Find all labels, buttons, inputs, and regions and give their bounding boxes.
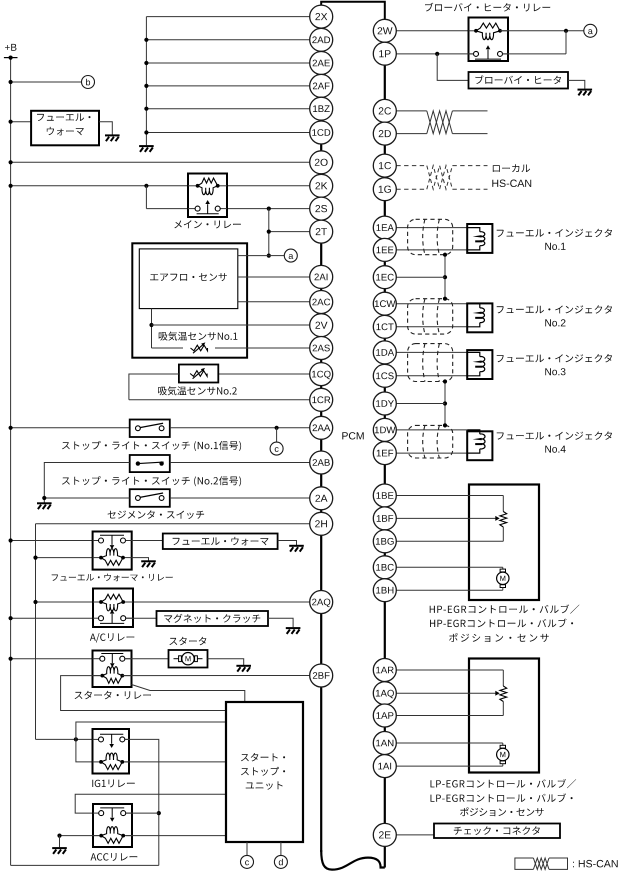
wire injector No.1 low bbox=[396, 249, 467, 251]
pin 1CQ bbox=[310, 363, 333, 386]
fuel warmer ground wire bbox=[99, 122, 112, 136]
+B supply label bbox=[5, 44, 17, 51]
+B terminal tick bbox=[4, 57, 18, 59]
pin 1EF bbox=[373, 442, 396, 465]
wire 2AB bbox=[170, 462, 310, 464]
injector No.4 coil glyph bbox=[467, 430, 480, 434]
injector No.4 box bbox=[467, 431, 492, 460]
wire 1AN bbox=[396, 742, 503, 744]
wire 2X bbox=[146, 16, 309, 18]
pin 2AE bbox=[310, 52, 333, 75]
A/C relay K2 bbox=[93, 589, 133, 628]
fuel warmer load box bbox=[163, 534, 278, 550]
fuel warmer box bbox=[31, 111, 99, 146]
pin 2K bbox=[310, 174, 333, 197]
starter motor ground wire bbox=[208, 659, 244, 665]
wire injector No.1 high bbox=[396, 227, 467, 229]
blowby coil to node a wire bbox=[500, 30, 584, 32]
PCM left pin column spine bbox=[320, 27, 322, 30]
start stop unit box bbox=[226, 702, 303, 842]
pin 1EC bbox=[373, 266, 396, 289]
wire 1AR bbox=[396, 669, 503, 671]
wire to fuel warmer bbox=[126, 540, 163, 542]
pin 2A bbox=[310, 487, 333, 510]
pin 2AA bbox=[310, 416, 333, 439]
IG1 feed junction bbox=[74, 737, 78, 741]
node 2S branch bbox=[267, 207, 271, 211]
wire 1BF (wiper) bbox=[396, 517, 496, 519]
stop light switch No.1 bbox=[130, 420, 170, 438]
fuel warmer feed wire bbox=[11, 121, 32, 123]
node b circle bbox=[82, 76, 95, 89]
ground blowby heater bbox=[578, 90, 593, 96]
starter motor box bbox=[169, 650, 208, 668]
local HS-CAN label bbox=[493, 164, 530, 172]
ACC contact output wire to unit bbox=[75, 794, 226, 813]
ACC contact +B junction bbox=[157, 811, 161, 815]
pin 1G bbox=[373, 178, 396, 201]
pin 1P bbox=[373, 42, 396, 65]
pin 1BZ bbox=[310, 97, 333, 120]
pin 1EA bbox=[373, 216, 396, 239]
wire 2AA bbox=[170, 427, 310, 429]
wire 2AD bbox=[146, 39, 309, 41]
pin 2X bbox=[310, 5, 333, 28]
twisted pair 1C/1G dashed bbox=[427, 166, 453, 190]
shield injector No.1 bbox=[408, 219, 453, 254]
blowby relay K6 bbox=[469, 18, 509, 62]
pin 2AF bbox=[310, 74, 333, 97]
wire 2E bbox=[396, 834, 434, 836]
injector No.3 box bbox=[467, 350, 492, 379]
IG1 contact to +B vertical bbox=[125, 739, 159, 865]
shield injector No.2 bbox=[408, 299, 453, 334]
IG1 sense wire to unit bbox=[76, 722, 226, 739]
ground fuel warmer load bbox=[289, 546, 304, 552]
pin 1CS bbox=[373, 364, 396, 387]
pin 1AP bbox=[373, 704, 396, 727]
bottom feed wire to IG1/ACC bbox=[11, 864, 159, 866]
wire injector No.3 high bbox=[396, 351, 467, 353]
IG1 relay contact feed bbox=[36, 738, 99, 740]
airflow sensor inner box bbox=[139, 249, 238, 309]
ACC relay K5 bbox=[93, 804, 132, 847]
pin 1BC bbox=[373, 556, 396, 579]
intake temp No.2 loop wire bbox=[129, 374, 179, 400]
pin 2AB bbox=[310, 451, 333, 474]
sedimenter switch bbox=[130, 489, 170, 507]
wire 2H bbox=[36, 523, 310, 525]
junction +B bbox=[9, 56, 13, 60]
pin 2AC bbox=[310, 291, 333, 314]
wire 2AQ bbox=[125, 601, 309, 603]
wire 1AI bbox=[396, 765, 503, 767]
injector No.2 box bbox=[467, 303, 492, 332]
airflow internal wire bbox=[151, 309, 153, 348]
pin 1CD bbox=[310, 121, 333, 144]
HP-EGR motor bbox=[500, 569, 505, 572]
pin bus vertical (2X..1CD) bbox=[145, 17, 147, 146]
pin 1BE bbox=[373, 484, 396, 507]
wire injector No.4 high bbox=[396, 429, 467, 431]
wire 1P bbox=[396, 53, 473, 55]
wire injector No.2 low bbox=[396, 326, 467, 328]
wire 2C bbox=[396, 110, 427, 112]
ground magnet clutch bbox=[286, 628, 301, 634]
ground sedimenter bbox=[37, 503, 52, 509]
pin 2T bbox=[310, 220, 333, 243]
starter relay contact feed bbox=[11, 658, 100, 660]
magnet clutch box bbox=[157, 611, 269, 626]
wire 2D bbox=[396, 133, 427, 135]
wire 2S bbox=[220, 208, 310, 210]
LP-EGR motor bbox=[500, 745, 505, 748]
wire injector No.4 low bbox=[396, 452, 467, 454]
wire stop light switch No.1 feed bbox=[11, 427, 130, 429]
fuel warmer load ground wire bbox=[278, 541, 297, 546]
wire 1AP bbox=[396, 715, 503, 717]
wire 1C (CAN H) bbox=[396, 165, 427, 167]
sedimenter switch ground wire bbox=[44, 497, 129, 499]
shield injector No.3 bbox=[408, 344, 453, 382]
pin 2C bbox=[373, 99, 396, 122]
pin 2E bbox=[373, 823, 396, 846]
airflow wire vcc bbox=[238, 255, 269, 257]
2H vertical feed line bbox=[35, 524, 37, 740]
injector No.3 coil glyph bbox=[467, 352, 480, 356]
pin 1C bbox=[373, 154, 396, 177]
PCM connector top edge (2X to 2W) bbox=[321, 2, 385, 20]
blowby heater ground wire bbox=[568, 80, 585, 88]
twisted pair 2C/2D bbox=[427, 111, 453, 134]
wire 1EC bbox=[396, 276, 445, 278]
pin 1BH bbox=[373, 579, 396, 602]
wire 2O bbox=[11, 161, 310, 163]
HS-CAN legend symbol bbox=[515, 858, 534, 869]
ground fuel warmer bbox=[105, 135, 120, 141]
pin 2H bbox=[310, 512, 333, 535]
blowby heater branch bbox=[435, 52, 439, 56]
wire 2AC bbox=[238, 301, 310, 303]
stop light switch No.2 bbox=[130, 455, 170, 472]
wire injector No.2 high bbox=[396, 303, 467, 305]
wire 2K (main relay coil) bbox=[11, 185, 197, 187]
pin 1DA bbox=[373, 341, 396, 364]
wire 2T bbox=[269, 231, 310, 233]
wire 2AF bbox=[146, 85, 309, 87]
PCM bottom torn edge bbox=[321, 850, 385, 870]
node b wire bbox=[11, 81, 82, 83]
node a junction bbox=[267, 254, 271, 258]
pin 2D bbox=[373, 122, 396, 145]
wire 1BC bbox=[396, 566, 503, 568]
pin 1BG bbox=[373, 530, 396, 553]
LP-EGR box bbox=[469, 659, 539, 773]
ground ACC coil bbox=[52, 848, 67, 854]
pin 1CW bbox=[373, 292, 396, 315]
wire 2W (blowby relay coil) bbox=[396, 30, 476, 32]
fuel warmer relay coil ground wire bbox=[132, 558, 149, 561]
wire to magnet clutch bbox=[126, 617, 157, 619]
pin 2AS bbox=[310, 337, 333, 360]
wire 1CR bbox=[129, 399, 310, 401]
A/C relay coil feed bbox=[36, 601, 99, 603]
wire 1CQ bbox=[218, 373, 309, 375]
pin 1AI bbox=[373, 755, 396, 778]
PCM right pin column spine bbox=[384, 41, 386, 44]
HP-EGR box bbox=[469, 485, 539, 601]
pin 2W bbox=[373, 19, 396, 42]
intake temp No.2 box bbox=[179, 365, 218, 383]
wire 1DY bbox=[396, 403, 445, 405]
pin 1CT bbox=[373, 315, 396, 338]
wire to node a bbox=[269, 255, 285, 257]
injector No.1 coil glyph bbox=[467, 228, 480, 232]
ground pin bus bbox=[139, 146, 154, 152]
thermistor intake temp No.2 bbox=[190, 371, 207, 377]
fuel warmer relay K1 bbox=[93, 532, 132, 570]
starter relay coil to unit wire bbox=[61, 676, 226, 711]
node a circle bbox=[284, 249, 297, 262]
fuel warmer relay coil feed bbox=[36, 557, 99, 559]
wire 1BZ bbox=[146, 108, 309, 110]
node d circle bbox=[274, 855, 287, 868]
starter relay arm wire to unit bbox=[132, 685, 245, 703]
pin 2AQ bbox=[310, 591, 333, 614]
pin 1AQ bbox=[373, 682, 396, 705]
airflow sensor outer box bbox=[132, 243, 247, 357]
wire 1BG bbox=[396, 540, 503, 542]
injector shield drain bus 2 (1DY) bbox=[444, 382, 446, 426]
wire 2A bbox=[170, 497, 310, 499]
A/C relay contact feed bbox=[11, 617, 99, 619]
injector No.1 box bbox=[467, 224, 492, 253]
pin 1CR bbox=[310, 388, 333, 411]
pin 2AI bbox=[310, 265, 333, 288]
PCM label bbox=[342, 432, 363, 439]
main relay contact feed bbox=[145, 186, 147, 209]
wire 1BH bbox=[396, 589, 503, 591]
injector No.2 coil glyph bbox=[467, 304, 480, 308]
fuel warmer relay contact feed bbox=[11, 540, 100, 542]
+B vertical bus wire bbox=[10, 58, 12, 866]
pin 1DW bbox=[373, 418, 396, 441]
pin 1AR bbox=[373, 659, 396, 682]
pin 2AD bbox=[310, 28, 333, 51]
node a circle right bbox=[584, 24, 597, 37]
blowby heater box bbox=[469, 72, 569, 89]
magnet clutch ground wire bbox=[268, 618, 293, 627]
node c2 circle bbox=[241, 855, 254, 868]
ACC coil ground wire bbox=[60, 835, 99, 837]
wire 2AS (intake temp sensor No.1) bbox=[152, 347, 310, 349]
starter motor M bbox=[174, 658, 180, 660]
LP-EGR position sensor resistor bbox=[500, 686, 507, 702]
ACC coil to unit wire bbox=[126, 835, 226, 837]
shield injector No.4 bbox=[408, 425, 453, 458]
pin 2BF bbox=[310, 664, 333, 687]
node d stem bbox=[280, 842, 282, 855]
wire 2BF bbox=[122, 675, 309, 677]
ground fuel warmer relay bbox=[141, 561, 156, 567]
wire 1G (CAN L) bbox=[396, 188, 427, 190]
pin 1AN bbox=[373, 732, 396, 755]
wire to starter motor bbox=[125, 658, 169, 660]
wire 2AE bbox=[146, 62, 309, 64]
HS-CAN legend label bbox=[573, 860, 618, 868]
pin 1BF bbox=[373, 507, 396, 530]
IG1 relay K4 bbox=[93, 729, 130, 774]
injector shield drain bus 1 (1EC) bbox=[444, 255, 446, 299]
starter relay K3 bbox=[93, 651, 132, 688]
thermistor intake temp No.1 bbox=[183, 342, 215, 354]
pin 1DY bbox=[373, 392, 396, 415]
blowby contact link wire bbox=[503, 53, 567, 55]
pin 2S bbox=[310, 197, 333, 220]
ground starter motor bbox=[236, 666, 251, 672]
wire 1AQ (wiper) bbox=[396, 692, 496, 694]
pin 2O bbox=[310, 151, 333, 174]
pin 1EE bbox=[373, 238, 396, 261]
stop light switch No.2 ground wire bbox=[44, 463, 129, 503]
wire 1CD bbox=[146, 132, 309, 134]
IG1 coil feed wire bbox=[76, 739, 99, 762]
wire 1BE bbox=[396, 495, 503, 497]
node c2 stem bbox=[246, 842, 248, 855]
wire injector No.3 low bbox=[396, 375, 467, 377]
main relay U1 bbox=[188, 174, 227, 218]
node c junction bbox=[275, 426, 279, 430]
HP-EGR position sensor resistor bbox=[500, 512, 507, 528]
IG1 coil to unit wire bbox=[125, 761, 227, 763]
check connector box bbox=[434, 824, 560, 839]
wire 2V bbox=[152, 324, 310, 326]
pin 2V bbox=[310, 314, 333, 337]
wire 2AI bbox=[238, 276, 310, 278]
node c circle bbox=[270, 442, 283, 455]
